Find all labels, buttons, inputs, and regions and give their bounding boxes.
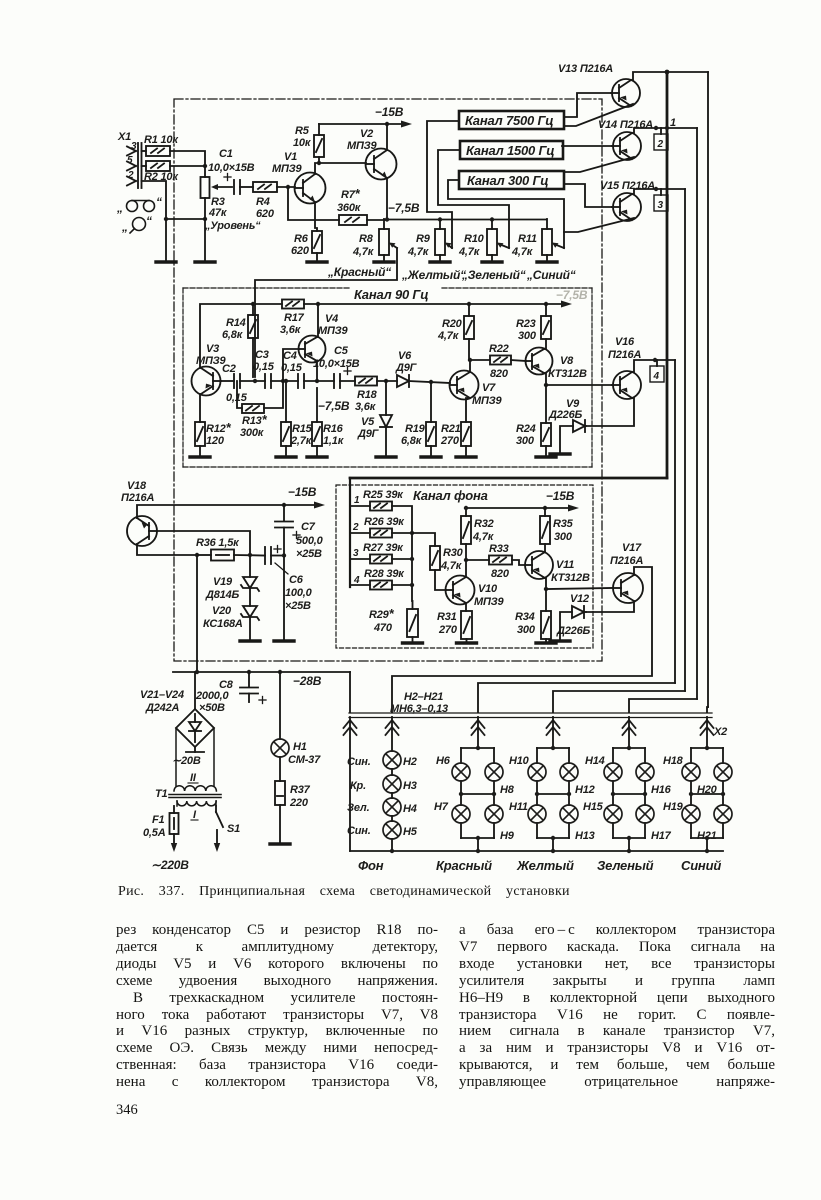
wire X1.3 to R1 [142,150,147,152]
bus vertical 4 [674,360,676,683]
svg-text:R21: R21 [441,423,461,435]
channel box 7500 Hz [459,111,564,129]
svg-text:470: 470 [373,622,393,634]
svg-text:3: 3 [658,200,664,211]
bus vertical 1 [707,72,709,707]
transformer T1 primary [177,801,216,806]
svg-text:Син.: Син. [347,825,371,837]
svg-text:F1: F1 [152,814,165,826]
svg-text:С3: С3 [255,349,269,361]
svg-text:Канал 7500 Гц: Канал 7500 Гц [465,113,553,128]
svg-text:V15 П216А: V15 П216А [600,180,655,192]
colour labels row [327,265,576,282]
svg-text:КТ312В: КТ312В [548,368,587,380]
K90 supply rail [200,301,572,369]
wire V8 emitter to R24 [545,385,547,423]
lamp bus labels [390,691,448,715]
svg-text:R24: R24 [516,423,536,435]
wire V10 collector [465,560,467,577]
wire V18 base to zeners [157,531,250,555]
svg-text:1,1к: 1,1к [323,435,345,447]
pickup icon 2 (microphone) [130,218,146,234]
C6 pointer line [275,563,288,574]
ground [550,640,570,642]
wire V16 emitter to V9 [586,398,634,426]
node V4 emitter tap [315,379,319,383]
resistor R6 [312,231,322,253]
resistor R20 [464,316,474,339]
R34 ground lead [545,639,547,642]
node 3 tap [654,187,658,191]
lamp H20 [714,763,732,781]
svg-text:500,0: 500,0 [296,535,324,547]
zener V19 [241,555,259,591]
svg-text:300к: 300к [240,427,265,439]
svg-text:„Красный“: „Красный“ [327,265,391,279]
ground [190,456,210,458]
transistor V3 (mirrored) [192,367,222,396]
svg-text:×25В: ×25В [296,548,322,560]
svg-text:R22: R22 [489,343,509,355]
svg-text:„Зеленый“: „Зеленый“ [461,268,526,282]
C7 labels [296,521,324,560]
R35 leads / V11 collector [544,508,546,552]
wire R12 ground [199,446,201,456]
wire R18 to V6 [377,380,397,382]
wire V2 collector [386,124,388,150]
svg-text:820: 820 [491,568,510,580]
wire R3 to ground [204,198,206,261]
C8 plus [259,697,266,704]
T1 core [169,795,221,798]
R31 labels [437,611,458,636]
capacitor C7 [275,505,293,640]
ground [374,261,394,263]
R8 labels [352,233,375,258]
capacitor C1 [234,180,240,194]
svg-text:Н7: Н7 [434,801,449,813]
V8 labels [548,355,587,380]
wire -28V to H1 [279,672,281,739]
node V4 base tap [281,379,285,383]
svg-text:С4: С4 [283,350,297,362]
svg-text:Т1: Т1 [155,788,168,800]
X1 pin 5 [127,162,136,171]
svg-text:1: 1 [354,495,360,506]
R34 labels [515,611,536,636]
svg-text:−7,5В: −7,5В [556,288,588,302]
svg-text:270: 270 [438,624,458,636]
V4 labels [318,313,349,337]
желтый node dots [535,746,571,840]
R12 labels [206,420,232,447]
fon column feed [391,717,393,751]
resistor R14 [248,315,258,338]
svg-text:V17: V17 [622,542,642,554]
svg-text:R18: R18 [357,389,378,401]
svg-text:„: „ [121,220,128,234]
svg-text:R7*: R7* [341,186,361,201]
svg-text:Н21: Н21 [697,830,717,842]
fon colour labels [347,756,371,837]
svg-text:3,6к: 3,6к [280,324,302,336]
wire node to R3 [204,166,206,177]
svg-text:Н5: Н5 [403,826,418,838]
svg-text:V14 П216А: V14 П216А [598,119,653,131]
lamp H17 [636,805,654,823]
wire V2 emitter [386,178,388,219]
svg-text:0,5А: 0,5А [143,827,166,839]
svg-text:СМ-37: СМ-37 [288,754,321,766]
wire R13 left [237,381,242,408]
wire X1.5 to R2 [142,165,147,167]
svg-text:R28 39к: R28 39к [364,568,405,580]
node dots common [164,217,207,221]
svg-text:300: 300 [516,435,535,447]
svg-text:3: 3 [131,141,137,152]
capacitor C5 [334,374,340,388]
capacitor C3 [265,374,271,388]
wire C1 to R4 [240,186,253,188]
svg-text:R4: R4 [256,196,270,208]
bridge AC tap bar [186,747,204,752]
wire V6 to V7 base [409,381,450,383]
R3 labels [204,196,261,232]
lamp H8 [485,763,503,781]
красный node dots [459,746,496,840]
svg-text:×25В: ×25В [285,600,311,612]
outer dash-dot enclosure frame [174,99,602,661]
svg-text:47к: 47к [208,207,228,219]
transistor V14 [612,132,641,160]
transistor V17 [613,573,643,603]
красный group wiring [461,717,494,851]
wire R9 wiper to ch7500 [427,121,459,248]
R24 ground lead [545,446,547,456]
svg-text:Н11: Н11 [509,801,528,813]
R9 labels [407,233,431,258]
wire V12 anode to ground [560,612,572,640]
ground [240,640,260,642]
lamp H12 [560,763,578,781]
wire V1 collector up [315,163,366,174]
svg-text:120: 120 [206,435,225,447]
terminal box 4 [650,360,664,382]
svg-text:R9: R9 [416,233,431,245]
svg-text:V12: V12 [570,593,589,605]
svg-text:V2: V2 [360,128,373,140]
svg-text:„Синий“: „Синий“ [526,268,576,282]
harness thick drop into fona box [349,478,351,587]
ground [457,642,477,644]
resistor R30 [430,546,440,570]
node V5 tap [384,379,388,383]
svg-text:R26 39к: R26 39к [364,516,405,528]
resistor R18 [355,377,377,386]
wire R11 wiper to ch300 [448,180,564,248]
ground [456,456,476,458]
svg-text:V20: V20 [212,605,232,617]
transistor V8 [526,348,553,375]
svg-text:X1: X1 [117,131,131,143]
wire V4 base [283,349,299,381]
svg-text:2: 2 [657,139,664,150]
wire X1.2 down [142,181,167,219]
svg-text:П216А: П216А [121,492,154,504]
svg-text:S1: S1 [227,823,240,835]
lamp H21 [714,805,732,823]
svg-text:220: 220 [289,797,309,809]
lamp H6 [452,763,470,781]
staircase wire V14 output to зеленый [629,699,697,712]
transistor V7 [450,371,479,400]
resistor R22 [490,356,511,365]
node V10 collector [464,558,468,562]
wire V14 collector to bus [632,128,697,133]
svg-text:3: 3 [353,548,359,559]
node R36 left [195,553,199,557]
wire V17 collector to fon lamps [392,567,652,712]
svg-text:Д226Б: Д226Б [556,625,590,637]
node 4 tap [653,358,657,362]
svg-text:R32: R32 [474,518,494,530]
svg-text:Н4: Н4 [403,803,417,815]
svg-text:R31: R31 [437,611,457,623]
svg-text:„: „ [116,201,123,215]
ground [307,456,327,458]
svg-text:0,15: 0,15 [281,362,303,374]
wire R33 to V11 base [512,560,525,565]
wire R37 to ground [279,805,281,843]
svg-text:R27 39к: R27 39к [363,542,404,554]
F1 labels [143,814,166,839]
resistor R35 [540,516,550,544]
C7 plus [293,532,300,539]
channel box 300 Hz [459,171,564,189]
R15 labels [290,423,313,447]
svg-text:V8: V8 [560,355,574,367]
svg-text:6,8к: 6,8к [401,435,423,447]
svg-text:Н9: Н9 [500,830,515,842]
lamp H13 [560,805,578,823]
node R7 tap [286,185,290,189]
svg-text:Красный: Красный [436,858,492,873]
wire to R30 [412,533,435,546]
bus vertical 2 [696,128,698,699]
svg-text:4,7к: 4,7к [437,330,460,342]
C1 labels [208,148,255,174]
transistor V1 [295,173,326,204]
svg-text:Син.: Син. [347,756,371,768]
svg-text:МПЗ9: МПЗ9 [318,325,349,337]
svg-text:Д9Г: Д9Г [395,362,418,374]
svg-text:Д242А: Д242А [145,702,179,714]
transistor V15 [612,193,641,221]
potentiometer R8 [379,219,397,261]
capacitor C6 [265,547,284,564]
svg-text:Зел.: Зел. [347,802,370,814]
svg-text:2000,0: 2000,0 [195,690,230,702]
wire R22 to V8 base [511,360,526,361]
resistor R25 [350,502,392,511]
R21 ground lead [465,446,467,456]
svg-text:Н6: Н6 [436,755,451,767]
C6 labels + pointer [285,574,313,612]
node V2 collector rail [385,122,389,126]
resistor R32 [461,516,471,544]
svg-text:Канал 1500 Гц: Канал 1500 Гц [466,143,554,158]
svg-text:0,15: 0,15 [253,361,275,373]
resistor R31 [461,611,472,639]
resistor R27 [350,555,392,564]
switch S1 [214,806,223,852]
R35 labels [553,518,574,543]
svg-text:−7,5В: −7,5В [388,201,420,215]
transistor V10 [446,576,475,605]
svg-text:−28В: −28В [293,674,322,688]
resistor R24 [541,423,551,446]
resistor R29 [407,609,418,637]
R20 labels [437,318,463,342]
R5 labels [293,125,312,149]
svg-text:R36 1,5к: R36 1,5к [196,537,240,549]
resistor R26 [350,529,392,538]
V5 labels [357,416,380,440]
svg-text:R12*: R12* [206,420,232,435]
svg-text:300: 300 [518,330,537,342]
синий node dots [689,746,725,840]
wire V9 anode to ground [560,426,573,453]
svg-text:R14: R14 [226,317,246,329]
resistor R34 [541,611,551,639]
svg-text:„Желтый“: „Желтый“ [401,268,466,282]
R4 labels [256,196,275,220]
potentiometer R10 [487,219,509,261]
svg-text:V3: V3 [206,343,219,355]
svg-text:300: 300 [554,531,573,543]
svg-text:Канал 90 Гц: Канал 90 Гц [354,287,428,302]
svg-text:4,7к: 4,7к [458,246,481,258]
transistor V11 [525,551,553,579]
svg-text:4,7к: 4,7к [440,560,463,572]
wire R10 wiper to ch1500 [438,150,509,248]
resistor R2 [146,161,170,171]
svg-text:Зеленый: Зеленый [597,858,654,873]
svg-text:V1: V1 [284,151,297,163]
svg-text:“: “ [156,195,162,209]
svg-text:R19: R19 [405,423,426,435]
lamp H19 [682,805,700,823]
wire V8 emitter node [544,373,546,385]
R29 labels [369,606,395,634]
harness thick horizontal [350,477,667,480]
lamp H4 [383,798,401,816]
resistor R16 [312,422,322,446]
svg-text:R8: R8 [359,233,374,245]
svg-text:„Уровень“: „Уровень“ [204,220,261,232]
lamp H18 [682,763,700,781]
svg-text:×50В: ×50В [199,702,225,714]
svg-text:V10: V10 [478,583,498,595]
wire V1 emitter to R6 [315,202,317,231]
fuse F1 [170,806,179,852]
potentiometer R9 [435,219,452,261]
ground [274,640,294,642]
svg-text:−7,5В: −7,5В [318,399,350,413]
svg-text:“: “ [146,214,152,228]
R31 ground lead [466,639,468,642]
potentiometer R11 [542,219,564,261]
V19 labels [205,576,239,601]
svg-text:620: 620 [256,208,275,220]
transistor V18 (mirrored) [127,516,157,546]
R14 labels [222,317,246,341]
staircase wire V13 output to синий [707,707,708,712]
V12 labels [556,593,590,637]
node R15 top [284,379,288,383]
svg-text:Н8: Н8 [500,784,515,796]
transistor V2 [366,149,397,180]
svg-text:R34: R34 [515,611,535,623]
rail -7,5V [384,219,546,221]
C3 labels [253,349,275,373]
wire V4 emitter [316,361,318,381]
svg-text:С5: С5 [334,345,349,357]
transformer T1 secondary [174,728,216,791]
svg-text:МН6,3–0,13: МН6,3–0,13 [390,703,448,715]
wire V11 emitter to R34 [545,589,547,611]
ground [307,261,327,263]
lamp H2 [383,751,401,769]
wire R4 to V1 base [277,186,295,188]
V9 labels [548,398,582,421]
X1 pin 2 [127,177,136,186]
wire V16 collector to bus [632,360,675,372]
svg-text:С1: С1 [219,148,233,160]
resistor R1 [146,146,170,156]
svg-text:II: II [190,772,197,784]
svg-text:R33: R33 [489,543,509,555]
svg-text:6,8к: 6,8к [222,329,244,341]
harness thick vertical [666,72,669,478]
svg-text:КС168А: КС168А [203,618,243,630]
ground [376,456,396,458]
ground [537,261,557,263]
svg-text:Фон: Фон [358,858,384,873]
svg-text:С6: С6 [289,574,304,586]
wire V3 base to C2 [221,380,234,382]
ground [195,261,215,263]
svg-text:МПЗ9: МПЗ9 [347,140,378,152]
rail node dots [385,217,494,221]
potentiometer R3 [201,177,233,198]
R18 labels [355,389,378,413]
channel box 1500 Hz [460,141,563,159]
C6 plus [274,546,281,553]
svg-text:С2: С2 [222,363,236,375]
svg-text:С7: С7 [301,521,316,533]
resistor R7 [339,215,367,225]
wire V14 emitter return [564,157,634,172]
fon column stubs [391,769,393,851]
svg-text:4,7к: 4,7к [352,246,375,258]
wire V7 collector [470,360,490,372]
svg-text:Н13: Н13 [575,830,595,842]
node C6/C7 [282,553,286,557]
wire -28V down to connector [349,672,351,712]
svg-text:2,7к: 2,7к [290,435,313,447]
wire C2 to C3 [240,380,265,382]
